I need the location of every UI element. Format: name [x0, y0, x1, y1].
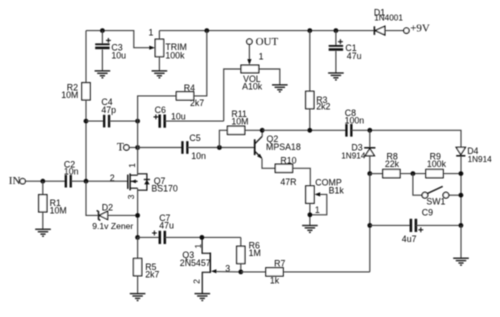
wire (collector row to C8): [262, 129, 346, 131]
wire (Q7 drain up): [137, 148, 139, 176]
resistor R11: [227, 109, 248, 134]
svg-text:10M: 10M: [50, 206, 67, 216]
wire (R1 to ground): [42, 212, 44, 229]
svg-text:1: 1: [315, 205, 320, 215]
svg-text:1k: 1k: [270, 276, 280, 286]
diode D1 1N4001: [374, 7, 403, 35]
wire (node up to R4): [138, 96, 177, 121]
wire (VOL end to ground): [259, 69, 280, 85]
wire (C5 to Q2 base): [187, 147, 254, 149]
wire (R9 to D4 node): [443, 173, 461, 175]
terminal T: [124, 145, 129, 150]
wire (summing node down): [137, 121, 139, 147]
svg-text:C5: C5: [189, 133, 200, 143]
svg-text:10n: 10n: [64, 167, 79, 177]
wire (D1 to +9V terminal): [385, 30, 404, 32]
svg-text:C9: C9: [422, 207, 433, 217]
svg-text:1N4001: 1N4001: [374, 13, 403, 22]
node C3/rail junction: [100, 28, 105, 33]
wire (rail corner down to R2): [85, 31, 87, 83]
svg-text:47u: 47u: [347, 51, 362, 61]
ground (R1): [35, 229, 51, 236]
node D3/R8: [367, 171, 372, 176]
capacitor C9: [402, 207, 433, 243]
wire (node to C4): [86, 120, 104, 122]
wire (COMP bottom to ground): [309, 203, 311, 225]
capacitor C6: [154, 105, 186, 128]
node rail/R4: [204, 28, 209, 33]
resistor R9: [426, 151, 447, 177]
wire (R7 to ladder rail): [283, 271, 370, 273]
transistor Q7 BS170: [128, 173, 178, 193]
wire (R3 to collector row): [309, 109, 311, 131]
wire (Q3 gate to R7 row): [216, 271, 240, 273]
svg-text:SW1: SW1: [426, 196, 445, 206]
wire (R10 to COMP): [293, 168, 311, 186]
terminal +9V: [404, 28, 409, 33]
svg-text:2: 2: [110, 173, 115, 183]
resistor R5: [133, 258, 159, 279]
wire (R6 bottom): [240, 264, 242, 272]
node rail/R3: [307, 28, 312, 33]
ground (R5): [130, 294, 146, 301]
wire (C3 node to TRIM wiper): [86, 31, 150, 48]
svg-text:C6: C6: [155, 105, 166, 115]
resistor R1: [39, 195, 67, 216]
wire (IN to C2): [25, 180, 66, 182]
trimmer COMP B1k: [306, 178, 345, 204]
wire (to SW1): [413, 174, 422, 196]
wire (C7 to R6 riser): [165, 236, 241, 238]
wire (to C7): [138, 236, 160, 238]
svg-text:2k2: 2k2: [316, 102, 330, 112]
svg-text:A10k: A10k: [242, 82, 263, 92]
transistor Q3 2N5457: [180, 238, 217, 294]
ground (VOL): [272, 85, 288, 92]
svg-text:47u: 47u: [159, 221, 174, 231]
capacitor C2: [66, 175, 71, 188]
potentiometer VOL A10k: [241, 65, 263, 92]
wire (C8 to D4): [351, 130, 461, 147]
switch SW1: [422, 186, 449, 206]
wire (R8 to R9): [400, 173, 426, 175]
node COMP wiper/bottom: [308, 212, 313, 217]
resistor R2: [61, 83, 90, 100]
resistor R8: [383, 151, 400, 177]
svg-text:47R: 47R: [280, 177, 296, 187]
terminal IN: [20, 179, 25, 184]
wire (C4 to summing node): [109, 120, 138, 122]
svg-text:OUT: OUT: [256, 36, 279, 48]
svg-text:IN: IN: [9, 175, 21, 187]
trimmer TRIM 100k: [155, 39, 187, 60]
node collector/R11/R3: [260, 128, 265, 133]
node R6/Q3 gate/R7: [238, 270, 243, 275]
wire (node to D2): [86, 181, 98, 215]
node C2/R2/D2: [84, 179, 89, 184]
node C8/D3: [367, 128, 372, 133]
svg-text:D2: D2: [102, 203, 113, 213]
wire (T to drain node): [129, 147, 138, 149]
wire (to C9): [370, 224, 411, 226]
svg-text:1: 1: [193, 244, 203, 249]
svg-text:4u7: 4u7: [402, 234, 417, 244]
svg-text:100k: 100k: [427, 159, 447, 169]
wire (R4 to +9V rail): [194, 31, 207, 96]
transistor Q2 MPSA18: [255, 134, 301, 159]
wire (to R7): [241, 271, 266, 273]
wire (C3 top lead): [101, 31, 103, 44]
wire (right rail to ground): [460, 225, 462, 258]
svg-text:1: 1: [259, 51, 264, 61]
svg-text:2N5457: 2N5457: [180, 258, 211, 268]
svg-text:1: 1: [148, 28, 153, 38]
svg-text:R4: R4: [184, 83, 195, 93]
wire (to R8): [370, 173, 383, 175]
node SW1/right rail: [459, 193, 464, 198]
svg-text:100k: 100k: [165, 50, 185, 60]
capacitor C1: [329, 39, 362, 61]
node C4/C6/R4: [135, 119, 140, 124]
resistor R10: [275, 155, 296, 187]
wire (C6 to VOL riser): [165, 120, 224, 122]
node D2/source: [135, 213, 140, 218]
wire (R5 to ground): [137, 276, 139, 294]
wire (node to R1): [42, 181, 44, 195]
node R2/C4: [84, 119, 89, 124]
wire (D2 to source line): [108, 214, 138, 216]
node R8/R9/SW1: [411, 171, 416, 176]
wiper arrow of COMP: [315, 192, 321, 196]
wire (Q7 source down): [137, 188, 139, 237]
svg-text:1M: 1M: [249, 248, 261, 258]
ground (C3): [95, 71, 111, 78]
wire (D3 to R8 row): [369, 156, 371, 174]
wire (to R6 top): [240, 237, 242, 246]
svg-text:10u: 10u: [171, 111, 186, 121]
svg-text:10n: 10n: [191, 151, 206, 161]
svg-text:10M: 10M: [231, 116, 248, 126]
wire (TRIM to ground): [158, 57, 160, 71]
node source/C7/R5: [135, 235, 140, 240]
wire (rail to R3): [309, 31, 311, 92]
ground (COMP): [302, 226, 318, 233]
svg-text:BS170: BS170: [151, 183, 178, 193]
wire (node up to R11): [219, 130, 227, 147]
wire (R11 to collector node): [245, 129, 262, 131]
wiper arrow of TRIM: [149, 46, 155, 50]
capacitor C8: [346, 124, 351, 137]
svg-text:2k7: 2k7: [190, 98, 204, 108]
terminal OUT: [247, 39, 252, 44]
svg-text:10u: 10u: [111, 51, 126, 61]
svg-text:9.1v Zener: 9.1v Zener: [92, 221, 133, 231]
node R3/collector row: [307, 128, 312, 133]
svg-text:10M: 10M: [61, 90, 78, 100]
diode D2 9.1v zener: [92, 203, 133, 231]
wire (node to R5): [137, 237, 139, 258]
svg-text:2k7: 2k7: [145, 270, 159, 280]
resistor R7: [266, 258, 286, 285]
svg-text:47p: 47p: [101, 105, 116, 115]
wire (node to D3): [369, 130, 371, 147]
svg-text:R7: R7: [274, 258, 285, 268]
capacitor C5: [182, 141, 187, 154]
wire (Q2 collector up): [261, 130, 263, 136]
diode D3 1N914: [341, 142, 375, 160]
resistor R4: [176, 83, 204, 108]
node rail/C1: [334, 28, 339, 33]
node R9/D4: [459, 171, 464, 176]
wire (TRIM pin1 to +9V rail): [158, 31, 160, 40]
wire (SW1 to right rail): [449, 194, 461, 196]
svg-text:B1k: B1k: [329, 185, 345, 195]
wiper arrow of VOL: [247, 59, 251, 65]
svg-text:T: T: [117, 141, 124, 153]
wire (C3 to ground): [101, 49, 103, 71]
wire (C2 to Q7 gate): [71, 180, 128, 182]
svg-text:R10: R10: [280, 155, 296, 165]
node T/drain: [135, 145, 140, 150]
svg-text:22k: 22k: [385, 159, 400, 169]
wire (VOL end to C6): [224, 69, 241, 121]
svg-text:1: 1: [127, 163, 137, 168]
ground (C1): [328, 73, 344, 80]
node C7/Q3 drain: [200, 235, 205, 240]
svg-text:1N914: 1N914: [341, 151, 366, 160]
wire (C1 top lead): [335, 31, 337, 45]
wire (C1 to ground): [335, 51, 337, 73]
resistor R6: [237, 240, 261, 263]
capacitor C3: [95, 38, 126, 61]
capacitor C4: [104, 115, 109, 128]
capacitor C7: [152, 213, 174, 244]
wire (left ladder rail down): [369, 174, 371, 272]
ground (Q3): [195, 294, 211, 301]
svg-text:MPSA18: MPSA18: [266, 142, 301, 152]
diode D4 1N914: [456, 146, 492, 164]
svg-text:2: 2: [192, 279, 202, 284]
wire (+9V rail): [159, 30, 374, 32]
svg-text:1N914: 1N914: [468, 155, 493, 164]
svg-text:100n: 100n: [345, 116, 365, 126]
wire (Q2 emitter to R10): [262, 159, 275, 169]
svg-text:3: 3: [126, 194, 136, 199]
resistor R3: [306, 91, 331, 111]
wire (R2 to C2/gate node): [85, 100, 87, 182]
node C9 left: [367, 223, 372, 228]
wire (C9 to right rail): [416, 224, 461, 226]
wire (COMP wiper to bottom): [310, 194, 327, 214]
ground (right rail): [453, 258, 469, 265]
wire (D4 down right rail): [460, 156, 462, 226]
node C9 right: [459, 223, 464, 228]
node IN/R1: [40, 179, 45, 184]
wire (OUT to VOL wiper): [248, 44, 250, 60]
node C5/R11/base: [217, 145, 222, 150]
wire (to C5): [138, 147, 183, 149]
ground (TRIM): [152, 71, 168, 78]
svg-text:+9V: +9V: [410, 23, 430, 35]
